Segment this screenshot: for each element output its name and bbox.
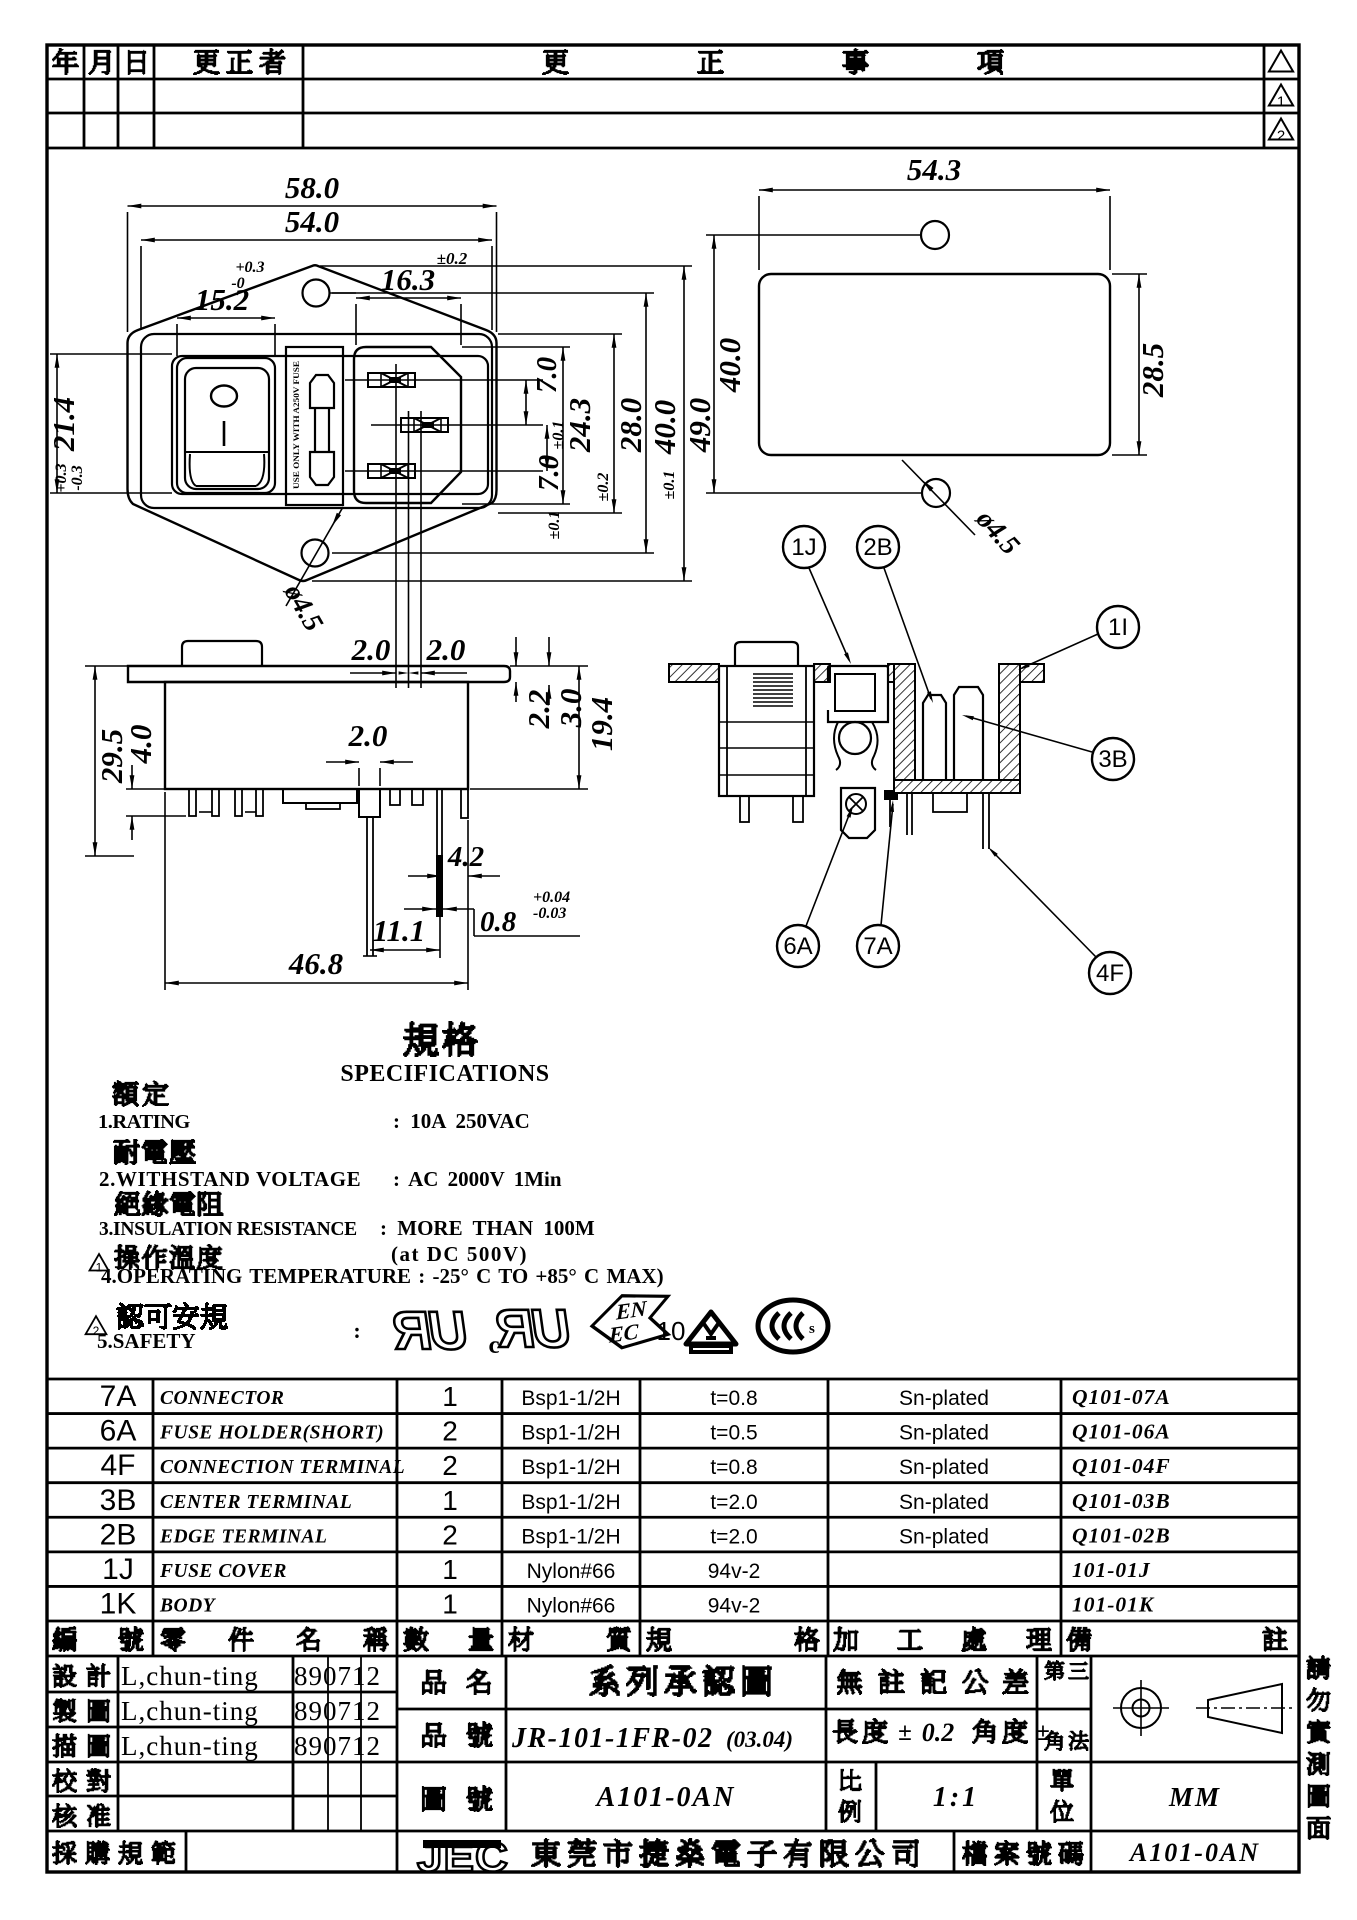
dim 28.5 cutout (1138, 274, 1140, 455)
dim 49.0 front (683, 266, 685, 581)
svg-text:24.3: 24.3 (562, 398, 597, 453)
svg-text:t=2.0: t=2.0 (710, 1491, 757, 1514)
svg-text:46.8: 46.8 (288, 946, 344, 981)
svg-text:±: ± (1036, 1719, 1049, 1746)
svg-text:EC: EC (608, 1319, 639, 1348)
dim 54.0 (141, 239, 492, 241)
svg-text:Nylon#66: Nylon#66 (527, 1594, 616, 1617)
svg-text:Bsp1-1/2H: Bsp1-1/2H (521, 1525, 620, 1548)
svg-text:JR-101-1FR-02: JR-101-1FR-02 (511, 1723, 714, 1754)
cell 檔案號碼 (962, 1840, 988, 1866)
svg-text:2: 2 (442, 1416, 458, 1447)
dim 40.0 +-0.1 front (645, 293, 647, 553)
svg-text:49.0: 49.0 (682, 398, 717, 453)
svg-text:1K: 1K (100, 1587, 137, 1620)
svg-text::: : (353, 1318, 360, 1343)
svg-text:7A: 7A (863, 933, 892, 960)
svg-text:USE ONLY WITH A250V FUSE: USE ONLY WITH A250V FUSE (291, 361, 301, 489)
svg-text:L,chun-ting: L,chun-ting (121, 1661, 259, 1691)
dim 21.4 +0.3/-0 vertical (56, 354, 58, 493)
svg-text:Sn-plated: Sn-plated (899, 1491, 989, 1514)
side view: connection terminal thick bar (436, 789, 438, 855)
svg-text:94v-2: 94v-2 (708, 1594, 761, 1617)
svg-text:2.0: 2.0 (426, 632, 466, 667)
IEC inlet recess outline (354, 347, 461, 503)
svg-text:c: c (488, 1332, 499, 1359)
third angle symbol cone (1208, 1684, 1282, 1733)
svg-text:CONNECTOR: CONNECTOR (160, 1388, 284, 1409)
side view: fuse clip long leg (366, 817, 368, 956)
title row 核准 (52, 1803, 77, 1828)
front view: inner recess rect (172, 356, 488, 494)
dim 2.2 flange (515, 637, 517, 666)
svg-text:4.2: 4.2 (447, 841, 484, 873)
title row 設計 (52, 1663, 77, 1688)
spec 2 withstand (113, 1139, 140, 1165)
title row 描圖 (52, 1733, 77, 1758)
svg-text:BODY: BODY (159, 1595, 217, 1616)
svg-text:t=0.8: t=0.8 (710, 1387, 757, 1410)
svg-text:1: 1 (442, 1485, 458, 1516)
section: switch spring hatch (753, 673, 793, 675)
svg-text:1: 1 (1277, 94, 1285, 111)
svg-text:-0.03: -0.03 (533, 905, 566, 922)
section: IEC floor hatched (894, 780, 1020, 793)
side view: small tabs right (390, 789, 400, 805)
svg-text:(at DC 500V): (at DC 500V) (391, 1242, 528, 1266)
parts table grid (47, 1378, 1299, 1381)
svg-text:-0.3: -0.3 (69, 465, 86, 490)
svg-text:UR: UR (491, 1299, 574, 1359)
svg-text:101-01J: 101-01J (1072, 1558, 1151, 1582)
svg-text:2.WITHSTAND VOLTAGE: 2.WITHSTAND VOLTAGE (99, 1167, 361, 1191)
fuse symbol bottom cap (310, 452, 334, 485)
svg-text:SPECIFICATIONS: SPECIFICATIONS (340, 1061, 549, 1087)
side view: body box (165, 682, 468, 789)
svg-text:Sn-plated: Sn-plated (899, 1387, 989, 1410)
revision triangle row 3 (1269, 119, 1293, 140)
side view: flange slab (128, 666, 510, 682)
fuse symbol tube (315, 408, 329, 452)
svg-text:Nylon#66: Nylon#66 (527, 1560, 616, 1583)
svg-text:11.1: 11.1 (373, 913, 426, 948)
section: IEC right wall hatched (999, 664, 1020, 780)
svg-text:6A: 6A (783, 933, 812, 960)
section: fuse holder cap below flange (841, 788, 875, 838)
front view: flange outline (128, 265, 497, 581)
revision triangle row 2 (1269, 85, 1293, 106)
dim 3.0 (548, 637, 550, 666)
balloon 7A (857, 925, 899, 967)
svg-text:A101-0AN: A101-0AN (595, 1782, 736, 1813)
svg-text:±0.1: ±0.1 (546, 511, 563, 540)
third angle symbol circle (1121, 1688, 1161, 1728)
dim 24.3 +-0.2 (562, 347, 564, 504)
svg-text:Bsp1-1/2H: Bsp1-1/2H (521, 1422, 620, 1445)
cutout bottom mounting hole (922, 479, 950, 507)
rocker I marking (223, 421, 226, 446)
rocker seam (186, 451, 268, 453)
cell 長度0.2角度 (832, 1718, 858, 1744)
cell 比例 (840, 1769, 862, 1791)
balloon 1J (783, 526, 825, 568)
section: pin 3B (954, 687, 983, 780)
svg-text:Q101-04F: Q101-04F (1072, 1454, 1171, 1478)
svg-text:6A: 6A (100, 1415, 137, 1448)
svg-text:54.3: 54.3 (907, 152, 961, 187)
svg-text:L,chun-ting: L,chun-ting (121, 1696, 259, 1726)
dim 19.4 (578, 666, 580, 789)
dim 15.2 +0.3/-0 (177, 317, 275, 319)
dim o4.5 cutout leader (902, 460, 975, 535)
svg-text:101-01K: 101-01K (1072, 1592, 1155, 1616)
logo CCC (758, 1300, 828, 1352)
dim 46.8 (165, 982, 468, 984)
svg-text:1: 1 (442, 1381, 458, 1412)
svg-text:Q101-06A: Q101-06A (1072, 1420, 1171, 1444)
svg-text:L,chun-ting: L,chun-ting (121, 1731, 259, 1761)
balloon 3B (1092, 738, 1134, 780)
svg-text:Sn-plated: Sn-plated (899, 1456, 989, 1479)
revision table grid (47, 45, 1299, 148)
svg-text:±0.2: ±0.2 (437, 249, 468, 268)
svg-text:2: 2 (442, 1519, 458, 1550)
svg-text:+0.3: +0.3 (53, 463, 70, 492)
svg-text:+0.3: +0.3 (235, 259, 264, 276)
balloon 1I (1097, 606, 1139, 648)
parts table header row CJK (52, 1626, 77, 1652)
revision table headers (52, 48, 1004, 75)
balloon 6A (777, 925, 819, 967)
section: pin 2B (923, 695, 946, 780)
svg-text:3.0: 3.0 (553, 689, 588, 729)
dim 0.8 +0.04/-0.03 (404, 908, 436, 910)
product name 系列承認圖 (589, 1664, 620, 1697)
svg-text:±0.2: ±0.2 (595, 473, 612, 502)
logo cUL (491, 1299, 574, 1359)
cell 品名 (422, 1669, 447, 1695)
svg-text:Bsp1-1/2H: Bsp1-1/2H (521, 1491, 620, 1514)
svg-text:: 10A 250VAC: : 10A 250VAC (393, 1109, 530, 1133)
svg-text:CONNECTION TERMINAL: CONNECTION TERMINAL (160, 1457, 405, 1478)
title row 校對 (52, 1768, 77, 1793)
spec 5 safety (86, 1316, 107, 1334)
balloon 2B (857, 526, 899, 568)
cell 單位 (1050, 1769, 1074, 1792)
dim 7.0 +-0.1 upper (525, 380, 527, 425)
svg-text:890712: 890712 (294, 1661, 381, 1691)
dim 54.3 (759, 189, 1110, 191)
margin vertical note 請勿實測圖面 (1306, 1655, 1331, 1680)
dim 11.1 (370, 949, 440, 951)
side view: fuse drawer bottom (283, 789, 357, 803)
dim 29.5 (94, 666, 96, 856)
svg-text:19.4: 19.4 (584, 697, 619, 751)
svg-text:Sn-plated: Sn-plated (899, 1525, 989, 1548)
side view: right edge tab (461, 789, 468, 818)
svg-text:5.SAFETY: 5.SAFETY (97, 1329, 196, 1353)
section: flange hatched segments (669, 664, 719, 682)
dim 40.0 cutout (713, 235, 715, 493)
svg-text:CENTER TERMINAL: CENTER TERMINAL (160, 1492, 352, 1513)
svg-text:1: 1 (442, 1588, 458, 1619)
dim 28.0 +-0.2 (613, 334, 615, 513)
svg-text:40.0: 40.0 (712, 338, 747, 393)
specs heading CJK (403, 1021, 439, 1057)
svg-text:+0.04: +0.04 (533, 889, 570, 906)
svg-text:54.0: 54.0 (285, 204, 339, 239)
IEC pin middle (N) (401, 418, 448, 432)
section: fuse clip arms (834, 722, 840, 770)
svg-text:2.0: 2.0 (348, 718, 388, 753)
rocker O marking (211, 386, 237, 407)
front view: top mounting hole (303, 280, 330, 307)
svg-text:0.2: 0.2 (922, 1718, 955, 1747)
svg-text:(03.04): (03.04) (726, 1727, 793, 1752)
svg-text:1J: 1J (102, 1553, 134, 1586)
cell 品號 (422, 1722, 447, 1748)
svg-text:16.3: 16.3 (381, 262, 435, 297)
company name (531, 1838, 561, 1868)
IEC pin bottom (L) (368, 464, 415, 478)
title block grid (47, 1691, 397, 1694)
svg-text:58.0: 58.0 (285, 170, 339, 205)
fuse holder label text (291, 361, 301, 489)
svg-text:FUSE COVER: FUSE COVER (159, 1561, 287, 1582)
dim 2.0 2.0 pins (350, 672, 396, 674)
svg-text:7.0: 7.0 (533, 455, 565, 491)
dim 7.0 +-0.1 lower (546, 425, 548, 471)
svg-text:: AC 2000V 1Min: : AC 2000V 1Min (393, 1167, 562, 1191)
fuse symbol top cap (310, 375, 334, 408)
svg-text:1:1: 1:1 (933, 1782, 979, 1813)
section: switch terminals (740, 796, 749, 822)
cell 圖號 (422, 1786, 446, 1812)
rocker switch frame (185, 368, 269, 489)
cutout top mounting hole (921, 221, 949, 249)
front view: bottom mounting hole (302, 540, 329, 567)
svg-text:±0.1: ±0.1 (661, 471, 678, 500)
svg-text:28.0: 28.0 (613, 398, 648, 453)
svg-text:s: s (809, 1321, 815, 1337)
svg-text:21.4: 21.4 (46, 397, 81, 452)
svg-text:Sn-plated: Sn-plated (899, 1422, 989, 1445)
svg-text:28.5: 28.5 (1135, 343, 1170, 398)
rocker lower bevel (190, 454, 265, 486)
section: fuse circle (839, 722, 871, 754)
svg-text:890712: 890712 (294, 1696, 381, 1726)
section: connector 7A solder tab (884, 790, 898, 800)
svg-text:EDGE TERMINAL: EDGE TERMINAL (159, 1526, 327, 1547)
svg-text:-0: -0 (231, 275, 244, 292)
svg-text:4F: 4F (100, 1449, 135, 1482)
section: rocker tab (735, 642, 798, 666)
svg-text:4.0: 4.0 (123, 725, 158, 765)
svg-text:t=2.0: t=2.0 (710, 1525, 757, 1548)
svg-text:FUSE HOLDER(SHORT): FUSE HOLDER(SHORT) (159, 1423, 384, 1444)
svg-text:Q101-02B: Q101-02B (1072, 1523, 1171, 1547)
front view: body outer rounded rect (141, 334, 492, 508)
revision triangle row 1 (1269, 51, 1293, 72)
cell 第三角法 (1044, 1660, 1065, 1681)
svg-text:94v-2: 94v-2 (708, 1560, 761, 1583)
dim 2.0 fuse terminal (326, 761, 359, 763)
svg-text:2: 2 (442, 1450, 458, 1481)
cell 無註記公差 (837, 1668, 863, 1695)
dim o4.5 front leader (286, 507, 343, 606)
dim 58.0 (128, 205, 497, 207)
svg-text:: MORE THAN 100M: : MORE THAN 100M (380, 1216, 595, 1240)
svg-text:Q101-07A: Q101-07A (1072, 1385, 1171, 1409)
svg-text:±: ± (898, 1719, 911, 1746)
svg-text:3.INSULATION RESISTANCE: 3.INSULATION RESISTANCE (99, 1219, 357, 1240)
section: fuse cover 1J (828, 666, 888, 722)
logo UL recognized (388, 1301, 471, 1361)
svg-text:3B: 3B (100, 1484, 137, 1517)
balloon 4F (1089, 952, 1131, 994)
title row 製圖 (53, 1698, 77, 1723)
svg-text:UR: UR (388, 1301, 471, 1361)
switch opening (177, 358, 275, 493)
svg-text:4.OPERATING TEMPERATURE : -25°: 4.OPERATING TEMPERATURE : -25° C TO +85°… (101, 1264, 664, 1288)
spec 3 insulation (114, 1191, 141, 1216)
svg-text:A101-0AN: A101-0AN (1128, 1838, 1260, 1867)
svg-text:1: 1 (442, 1554, 458, 1585)
svg-text:10: 10 (657, 1316, 686, 1346)
row 採購規範 (52, 1840, 77, 1865)
svg-text:2: 2 (1277, 128, 1285, 145)
side view: fuse holder terminal 2mm (359, 789, 380, 817)
logo VDE triangle (686, 1312, 736, 1352)
section: switch body (719, 666, 814, 796)
svg-text:1I: 1I (1108, 614, 1128, 641)
svg-text:3B: 3B (1098, 746, 1127, 773)
section: legs below floor (906, 793, 908, 835)
svg-text:1J: 1J (791, 534, 816, 561)
spec 4 operating temp (90, 1254, 109, 1271)
svg-text:4F: 4F (1096, 960, 1124, 987)
svg-text:7A: 7A (100, 1380, 137, 1413)
svg-text:2B: 2B (863, 534, 892, 561)
svg-text:Bsp1-1/2H: Bsp1-1/2H (521, 1387, 620, 1410)
svg-text:7.0: 7.0 (531, 357, 563, 393)
svg-text:2B: 2B (100, 1518, 137, 1551)
dim 16.3 +-0.2 (356, 297, 461, 299)
svg-text:t=0.8: t=0.8 (710, 1456, 757, 1479)
svg-text:40.0: 40.0 (647, 400, 682, 455)
svg-text:0.8: 0.8 (480, 906, 517, 938)
svg-text:Bsp1-1/2H: Bsp1-1/2H (521, 1456, 620, 1479)
svg-text:890712: 890712 (294, 1731, 381, 1761)
side view: rocker tab above flange (182, 641, 262, 666)
svg-text:2.0: 2.0 (351, 632, 391, 667)
IEC pin top (E) (368, 373, 415, 387)
section: IEC left wall hatched (894, 664, 915, 780)
svg-text:t=0.5: t=0.5 (710, 1422, 757, 1445)
fuse holder plate (286, 347, 343, 505)
svg-text:Q101-03B: Q101-03B (1072, 1489, 1171, 1513)
dim 4.2 (408, 875, 441, 877)
pin centerline verticals (395, 364, 397, 688)
spec 1 rating (112, 1080, 139, 1107)
side view: switch terminals (189, 789, 196, 816)
dim 4.0 (131, 765, 133, 789)
svg-text:1.RATING: 1.RATING (98, 1111, 190, 1133)
logo ENEC 10 (592, 1289, 668, 1352)
svg-text:MM: MM (1168, 1782, 1221, 1812)
cutout rectangle (759, 274, 1110, 455)
